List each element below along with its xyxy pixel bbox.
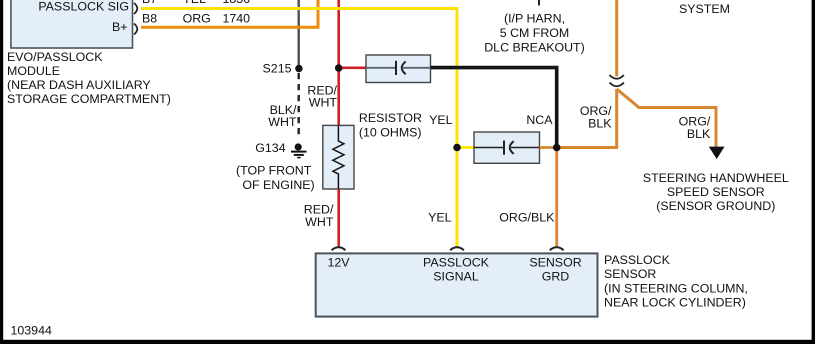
svg-text:GRD: GRD <box>542 269 570 283</box>
wire ORG C2 to junction <box>540 146 557 149</box>
label YEL upper <box>429 113 453 127</box>
pin B8 connector arc <box>134 24 137 35</box>
label YEL lower <box>428 211 452 225</box>
label module location <box>7 50 171 106</box>
wire ORG/BLK junction right and up to connector <box>557 89 617 148</box>
sensor PASSLOCK box <box>316 253 598 316</box>
label figure number 103944 <box>11 324 52 338</box>
label RED/WHT lower <box>304 203 334 230</box>
svg-text:RESISTOR: RESISTOR <box>359 111 422 125</box>
wire YEL passlock signal from module to sensor box <box>141 9 457 247</box>
node red junction <box>335 64 343 72</box>
svg-text:WHT: WHT <box>268 115 297 129</box>
label BLK/WHT <box>268 103 297 129</box>
wire RED junction down to resistor <box>337 70 340 125</box>
pin arc PASSLOCK SIGNAL <box>450 247 464 250</box>
svg-text:YEL: YEL <box>428 211 452 225</box>
svg-text:SIGNAL: SIGNAL <box>433 269 479 283</box>
label ORG/BLK lower <box>499 211 555 225</box>
label NCA <box>526 113 553 127</box>
svg-text:(SENSOR GROUND): (SENSOR GROUND) <box>656 199 775 213</box>
label steering handwheel speed sensor <box>643 171 789 213</box>
svg-text:YEL: YEL <box>429 113 453 127</box>
svg-text:YEL: YEL <box>183 0 207 6</box>
svg-text:SPEED SENSOR: SPEED SENSOR <box>667 185 765 199</box>
svg-text:5 CM FROM: 5 CM FROM <box>500 26 570 40</box>
node NCA junction <box>553 144 561 152</box>
svg-text:(TOP FRONT: (TOP FRONT <box>236 164 312 178</box>
svg-text:EVO/PASSLOCK: EVO/PASSLOCK <box>7 50 103 64</box>
svg-text:WHT: WHT <box>309 96 338 110</box>
wire BLK from top to S215 <box>298 0 300 66</box>
svg-text:SYSTEM: SYSTEM <box>679 2 730 16</box>
label ORG/BLK right <box>679 114 711 141</box>
svg-text:103944: 103944 <box>11 324 52 338</box>
wire RED from top to junction <box>337 0 340 66</box>
svg-text:B+: B+ <box>112 20 128 34</box>
label SYSTEM <box>679 2 730 16</box>
svg-text:G134: G134 <box>255 141 285 155</box>
wire ORG/BLK junction down to sensor grd pin <box>555 151 558 246</box>
pin arc SENSOR GRD <box>550 247 564 250</box>
svg-text:SENSOR: SENSOR <box>529 256 581 270</box>
svg-text:12V: 12V <box>328 256 351 270</box>
label ORG/BLK left <box>580 104 612 131</box>
svg-text:1740: 1740 <box>223 12 251 26</box>
svg-text:1836: 1836 <box>223 0 251 6</box>
svg-text:B7: B7 <box>142 0 157 6</box>
svg-text:NCA: NCA <box>526 113 553 127</box>
svg-text:(10 OHMS): (10 OHMS) <box>359 125 422 139</box>
pin label B7 YEL 1836 <box>142 0 250 6</box>
arrowhead off-page <box>709 147 725 159</box>
module EVO/PASSLOCK box <box>11 0 133 48</box>
pin arc 12V <box>332 247 346 250</box>
svg-text:B8: B8 <box>142 12 157 26</box>
wire ORG/BLK connector to top edge <box>615 0 618 77</box>
wire RED junction to capacitor C1 <box>342 67 366 70</box>
label passlock sensor location <box>604 253 748 310</box>
svg-text:(NEAR DASH AUXILIARY: (NEAR DASH AUXILIARY <box>7 78 151 92</box>
wire BLK/WHT dashed S215 to G134 <box>298 73 300 138</box>
ground G134 <box>255 141 306 158</box>
svg-text:S215: S215 <box>263 62 292 76</box>
resistor R1 10 ohms <box>323 125 354 189</box>
capacitor C1 (suppression, I/P harness) <box>366 55 431 83</box>
label ground location <box>236 164 315 192</box>
connector inline (2 arcs) <box>610 75 624 86</box>
svg-text:WHT: WHT <box>305 215 334 229</box>
capacitor C2 <box>474 132 540 163</box>
svg-text:STEERING HANDWHEEL: STEERING HANDWHEEL <box>643 171 789 185</box>
svg-text:DLC BREAKOUT): DLC BREAKOUT) <box>484 41 585 55</box>
wire ORG/BLK branch to steering sensor <box>617 89 716 148</box>
splice S215 <box>263 62 303 76</box>
svg-text:OF ENGINE): OF ENGINE) <box>242 178 314 192</box>
svg-text:MODULE: MODULE <box>7 64 60 78</box>
wire RED resistor to 12V pin <box>337 189 340 246</box>
label RED/WHT upper <box>307 84 337 110</box>
wire thick black C1 to NCA junction <box>431 68 557 148</box>
wire YEL junction to capacitor C2 <box>457 146 474 149</box>
label I/P HARN <box>484 0 585 55</box>
svg-text:STORAGE COMPARTMENT): STORAGE COMPARTMENT) <box>7 92 171 106</box>
svg-text:PASSLOCK: PASSLOCK <box>604 253 671 267</box>
wire ORG B+ from module up to top edge <box>141 0 318 27</box>
svg-text:(I/P HARN,: (I/P HARN, <box>504 12 565 26</box>
pin B7 connector arc <box>134 3 137 14</box>
svg-text:(IN STEERING COLUMN,: (IN STEERING COLUMN, <box>604 281 748 295</box>
node yellow junction <box>453 144 461 152</box>
pin label B8 ORG 1740 <box>142 12 250 26</box>
svg-text:PASSLOCK: PASSLOCK <box>423 256 490 270</box>
svg-text:ORG: ORG <box>183 12 211 26</box>
svg-text:ORG/BLK: ORG/BLK <box>499 211 555 225</box>
svg-text:BLK: BLK <box>588 116 612 130</box>
svg-text:NEAR LOCK CYLINDER): NEAR LOCK CYLINDER) <box>604 296 746 310</box>
svg-text:PASSLOCK SIG: PASSLOCK SIG <box>38 0 129 14</box>
svg-text:BLK: BLK <box>687 127 711 141</box>
svg-text:SENSOR: SENSOR <box>604 267 656 281</box>
label RESISTOR (10 OHMS) <box>359 111 422 139</box>
